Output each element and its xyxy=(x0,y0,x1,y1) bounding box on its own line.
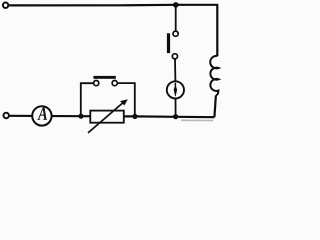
wire meter to bottom rail xyxy=(175,99,177,117)
switch K2 contact right xyxy=(112,81,117,86)
wire top rail xyxy=(9,4,218,7)
switch K1 contact bottom xyxy=(172,54,177,59)
node junction rheostat right xyxy=(132,114,137,119)
wire switch branch upper lead xyxy=(175,5,177,31)
wire shunt branch left riser xyxy=(81,83,93,116)
switch K1 contact top xyxy=(173,31,178,36)
meter M1 arrow xyxy=(174,83,176,86)
node junction rheostat left xyxy=(78,114,83,119)
wire scan shadow under bottom rail xyxy=(181,119,213,121)
terminal T1 (top left input) xyxy=(3,2,8,7)
switch K1 blade xyxy=(167,33,170,53)
wire bottom rail xyxy=(9,116,214,117)
terminal T2 (bottom left input) xyxy=(3,113,8,118)
inductor L1 (coil) xyxy=(210,56,218,95)
switch K2 blade xyxy=(93,76,115,79)
wire right side down to coil xyxy=(216,5,218,56)
rheostat R1 body xyxy=(90,111,124,123)
meter M1 (circle) xyxy=(167,81,184,98)
ammeter A1 label A xyxy=(37,107,47,120)
wire contact to meter xyxy=(174,59,176,80)
node junction top xyxy=(173,2,179,8)
wire shunt branch right riser xyxy=(118,83,135,116)
wire below coil xyxy=(214,95,216,117)
switch K2 contact left xyxy=(94,81,99,86)
node junction meter bottom xyxy=(173,114,178,119)
ammeter A1 (circle) xyxy=(32,106,51,125)
rheostat R1 arrow xyxy=(88,102,124,133)
